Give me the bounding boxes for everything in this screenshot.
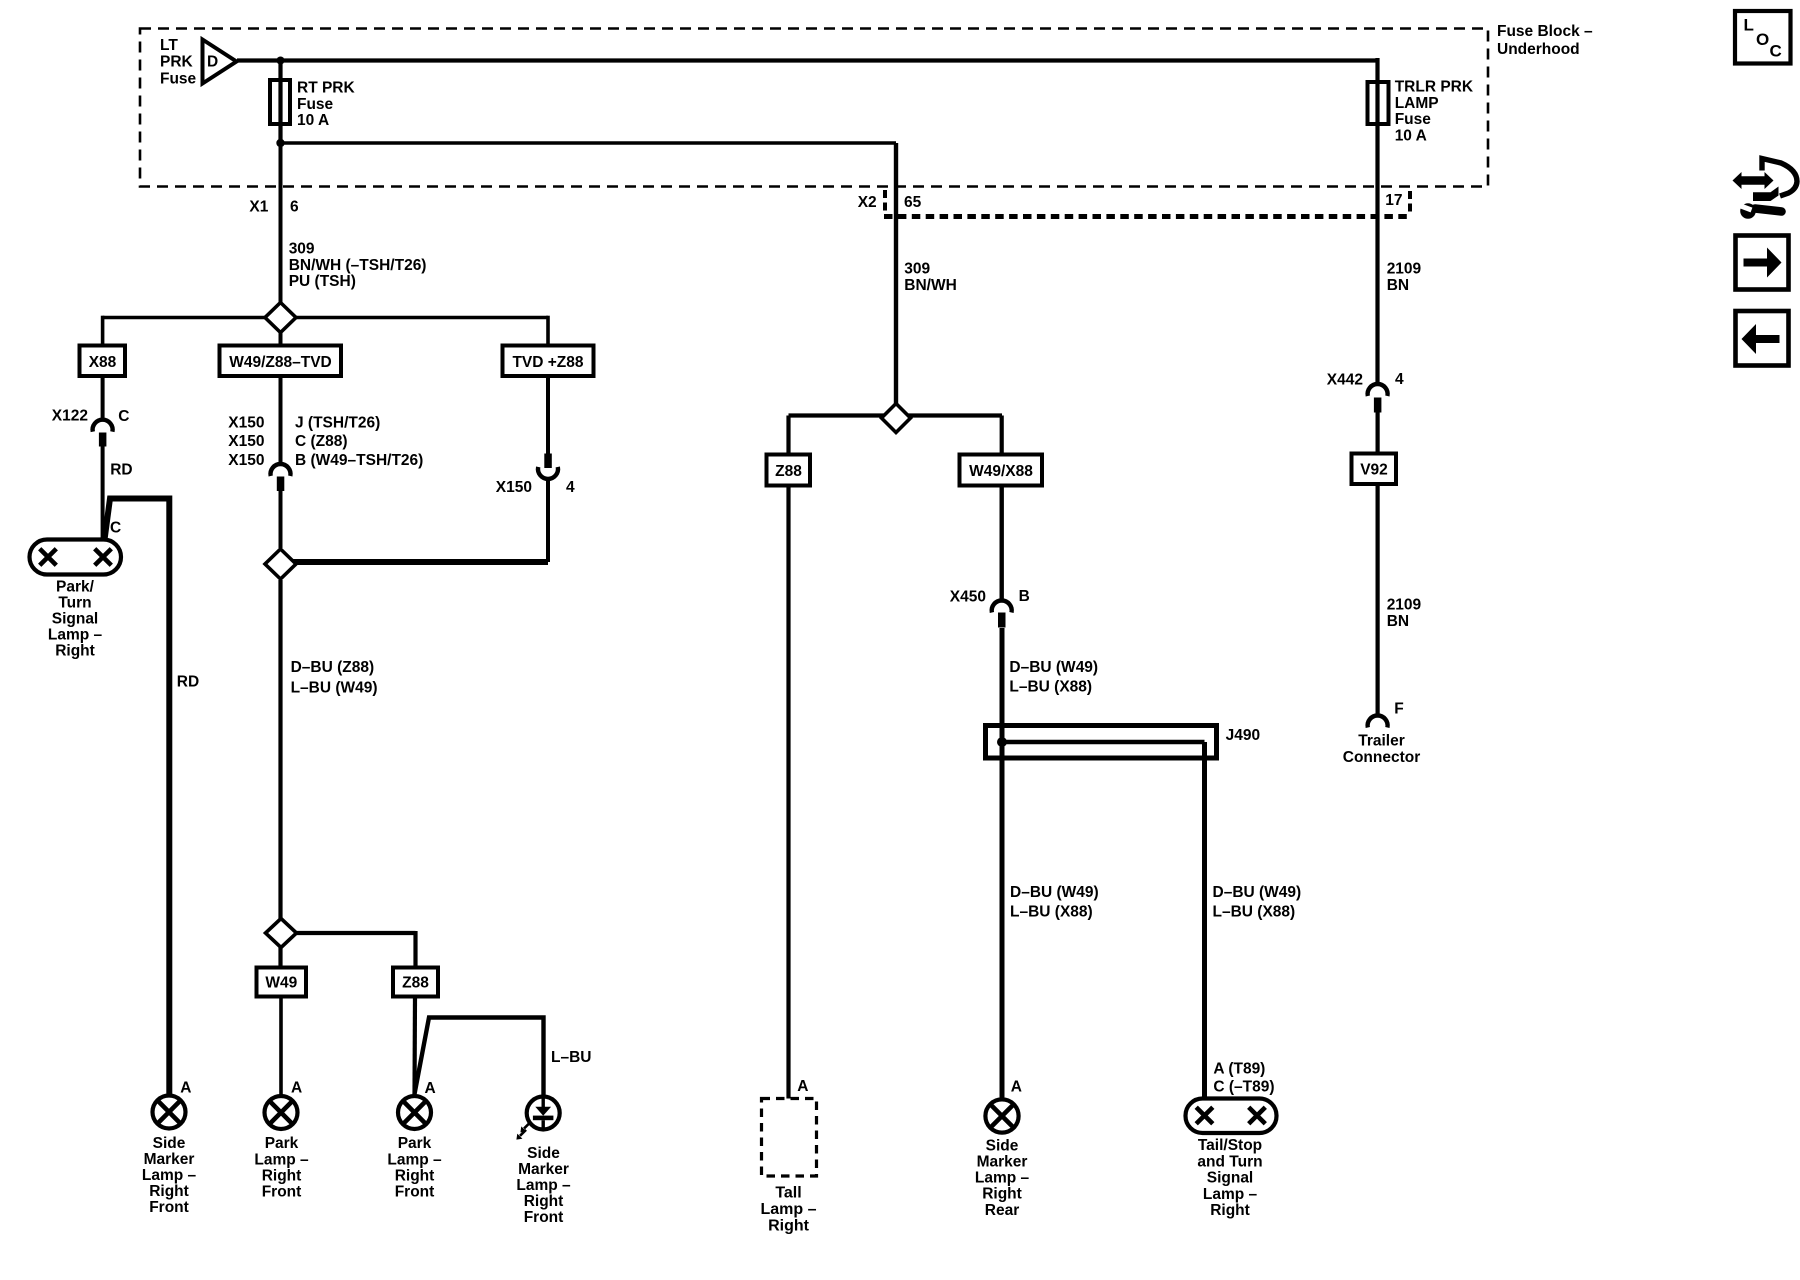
svg-text:L–BU (W49): L–BU (W49): [291, 679, 378, 696]
splice diamond S4 horizontal: [281, 931, 416, 935]
svg-text:Front: Front: [149, 1199, 189, 1216]
svg-text:2109: 2109: [1387, 597, 1422, 614]
svg-text:Right: Right: [395, 1167, 435, 1184]
connector code box W49: [257, 968, 307, 997]
svg-text:Fuse: Fuse: [160, 70, 197, 87]
legend box: right arrow: [1736, 236, 1789, 290]
svg-text:309: 309: [904, 261, 930, 278]
svg-text:A: A: [1011, 1078, 1022, 1095]
svg-text:C: C: [118, 408, 129, 425]
svg-text:L–BU: L–BU: [551, 1049, 591, 1066]
wire: box to X150: [279, 376, 283, 465]
splice diamond S1 horizontal wire: [103, 316, 548, 320]
svg-text:O: O: [1756, 30, 1769, 49]
svg-text:Fuse: Fuse: [297, 96, 334, 113]
svg-text:RD: RD: [177, 674, 199, 691]
svg-text:309: 309: [289, 241, 315, 258]
wire: box to X450: [1000, 486, 1004, 602]
svg-text:BN: BN: [1387, 277, 1409, 294]
svg-text:BN/WH: BN/WH: [904, 277, 957, 294]
wire: TVD box down to X150 pin 4: [546, 376, 550, 454]
svg-text:Side: Side: [986, 1137, 1019, 1154]
svg-text:A: A: [797, 1078, 808, 1095]
svg-text:Side: Side: [153, 1135, 186, 1152]
wire: fuse output: [278, 124, 282, 145]
svg-text:and Turn: and Turn: [1197, 1153, 1262, 1170]
svg-text:A: A: [180, 1080, 191, 1097]
svg-text:Lamp –: Lamp –: [760, 1201, 816, 1218]
svg-text:Lamp –: Lamp –: [254, 1151, 309, 1168]
svg-text:RT PRK: RT PRK: [297, 80, 356, 97]
svg-text:B: B: [1019, 588, 1030, 605]
svg-text:Signal: Signal: [1207, 1170, 1254, 1187]
svg-text:L–BU (X88): L–BU (X88): [1009, 678, 1092, 695]
LOC legend box: [1735, 11, 1791, 64]
svg-text:Underhood: Underhood: [1497, 41, 1580, 58]
svg-text:Signal: Signal: [52, 611, 99, 628]
in-line connector X122 pin C: [93, 420, 113, 432]
svg-text:L–BU (X88): L–BU (X88): [1213, 903, 1296, 920]
svg-text:Lamp –: Lamp –: [975, 1170, 1030, 1187]
tail/stop and turn signal lamp right: [1186, 1099, 1277, 1134]
svg-text:D–BU (W49): D–BU (W49): [1213, 884, 1302, 901]
svg-text:X150: X150: [496, 479, 532, 496]
svg-text:BN: BN: [1387, 613, 1409, 630]
svg-text:Right: Right: [524, 1193, 564, 1210]
svg-text:X150: X150: [228, 415, 264, 432]
splice diamond S1: [265, 303, 296, 333]
wire: X450 to J490 and down to side marker rear: [1000, 628, 1005, 1100]
thick wire from S2 to X150-4 corner: [281, 559, 549, 565]
svg-text:Marker: Marker: [144, 1151, 195, 1168]
svg-text:Right: Right: [262, 1167, 302, 1184]
connector code box X88: [80, 346, 126, 377]
svg-text:W49: W49: [265, 975, 297, 992]
svg-text:X1: X1: [249, 199, 268, 216]
svg-text:V92: V92: [1360, 462, 1388, 479]
connector code box Z88 (tail): [767, 455, 811, 486]
svg-text:PU (TSH): PU (TSH): [289, 273, 356, 290]
in-line connector X442 pin 4: [1368, 384, 1388, 396]
svg-text:Marker: Marker: [518, 1161, 569, 1178]
svg-text:Right: Right: [55, 643, 95, 660]
park/turn signal lamp right (dual filament): [30, 540, 122, 575]
fuse RT PRK 10A: [270, 80, 290, 124]
fuse TRLR PRK LAMP 10A: [1375, 58, 1379, 82]
svg-text:10 A: 10 A: [1395, 127, 1427, 144]
svg-text:X150: X150: [228, 433, 264, 450]
wire: down to splice diamond (circuit 309): [279, 143, 283, 347]
splice diamond S2: [265, 549, 296, 579]
svg-text:X442: X442: [1327, 371, 1363, 388]
side marker lamp right front (LED): [527, 1097, 560, 1130]
wire: corner down to X88 box: [101, 316, 105, 347]
svg-text:17: 17: [1385, 192, 1402, 209]
wire RD to lamp terminal C: [101, 447, 105, 541]
svg-text:Park/: Park/: [56, 579, 95, 596]
svg-text:Z88: Z88: [775, 463, 802, 480]
in-line connector X150 pin 4 (flipped): [544, 454, 552, 469]
park lamp right front (W49): [265, 1096, 298, 1129]
svg-text:10 A: 10 A: [297, 112, 329, 129]
svg-text:Right: Right: [982, 1186, 1022, 1203]
svg-text:Z88: Z88: [402, 975, 429, 992]
svg-text:Side: Side: [527, 1145, 560, 1162]
in-line connector X150 (3 pins): [271, 464, 291, 476]
splice pack J490: [986, 726, 1217, 759]
fuse block underhood dashed box: [140, 29, 1488, 187]
svg-text:X88: X88: [89, 354, 117, 371]
connector code box W49/X88: [960, 455, 1043, 486]
svg-text:Fuse: Fuse: [1395, 111, 1432, 128]
connector code box TVD +Z88: [503, 346, 594, 377]
junction node below RT PRK fuse: [276, 139, 284, 147]
svg-text:RD: RD: [110, 462, 132, 479]
side marker lamp right front (left, RD fed): [153, 1096, 186, 1129]
svg-text:X2: X2: [858, 194, 877, 211]
svg-text:LAMP: LAMP: [1395, 95, 1439, 112]
splice diamond S4: [266, 919, 297, 948]
svg-text:6: 6: [290, 199, 299, 216]
svg-text:W49/Z88–TVD: W49/Z88–TVD: [229, 354, 332, 371]
svg-text:2109: 2109: [1387, 261, 1422, 278]
wire: second feed to X2: [281, 141, 897, 145]
svg-text:X150: X150: [228, 452, 264, 469]
svg-text:4: 4: [566, 479, 575, 496]
svg-text:X450: X450: [950, 588, 986, 605]
svg-text:Rear: Rear: [985, 1202, 1019, 1219]
svg-text:Marker: Marker: [977, 1154, 1028, 1171]
connector code box W49/Z88-TVD: [220, 346, 342, 377]
svg-text:A: A: [291, 1080, 302, 1097]
splice diamond S3: [882, 404, 911, 433]
LT PRK Fuse triangle (D): [203, 40, 237, 84]
wire: circuit 2109 down to X442: [1375, 124, 1379, 385]
svg-text:D–BU (Z88): D–BU (Z88): [291, 659, 375, 676]
wire: X150 to splice diamond S2: [279, 491, 283, 548]
park lamp right front (Z88): [398, 1096, 431, 1129]
svg-text:Connector: Connector: [1343, 749, 1421, 766]
svg-text:Front: Front: [262, 1184, 302, 1201]
tail lamp right dashed box: [762, 1099, 817, 1177]
svg-text:Lamp –: Lamp –: [516, 1177, 571, 1194]
wire branch to side marker LED: [415, 1018, 544, 1097]
svg-text:Lamp –: Lamp –: [1203, 1186, 1258, 1203]
svg-text:X122: X122: [52, 408, 88, 425]
svg-text:Tail/Stop: Tail/Stop: [1198, 1137, 1262, 1154]
wire: X2 branch down to diamond: [894, 143, 898, 419]
svg-text:F: F: [1394, 701, 1403, 718]
wire: corner down to TVD box: [546, 316, 550, 346]
svg-text:W49/X88: W49/X88: [969, 463, 1033, 480]
svg-text:Right: Right: [1210, 1202, 1250, 1219]
svg-text:Lamp –: Lamp –: [142, 1167, 197, 1184]
splice diamond S3 horizontal: [789, 413, 1003, 417]
svg-text:C: C: [1770, 42, 1782, 61]
svg-text:4: 4: [1395, 371, 1404, 388]
wire: S4 to Z88 box: [413, 931, 417, 968]
wire: J490 right branch to tail/stop lamp: [1202, 742, 1207, 1099]
svg-text:D–BU (W49): D–BU (W49): [1009, 659, 1098, 676]
svg-text:J (TSH/T26): J (TSH/T26): [295, 415, 380, 432]
svg-text:Fuse Block –: Fuse Block –: [1497, 23, 1593, 40]
svg-text:L: L: [1744, 16, 1754, 35]
connector X2 dotted boundary: [884, 214, 1412, 219]
legend icon: double arrow with wrench: [1733, 159, 1798, 219]
svg-text:65: 65: [904, 194, 922, 211]
svg-text:A: A: [425, 1080, 436, 1097]
svg-text:C (–T89): C (–T89): [1213, 1078, 1274, 1095]
svg-text:Lamp –: Lamp –: [48, 627, 103, 644]
svg-text:Front: Front: [524, 1209, 564, 1226]
wire: S3 to W49/X88 box: [1000, 416, 1004, 456]
svg-text:Lamp –: Lamp –: [387, 1151, 442, 1168]
wire: Z88 box to park lamp A: [412, 997, 417, 1097]
svg-text:C: C: [110, 520, 121, 537]
svg-text:Park: Park: [398, 1135, 432, 1152]
svg-text:Trailer: Trailer: [1358, 733, 1405, 750]
svg-text:Park: Park: [265, 1135, 299, 1152]
wire: X88 box to X122: [101, 376, 105, 421]
wire: main feed from LT PRK fuse: [237, 58, 1378, 62]
trailer connector terminal F: [1368, 716, 1388, 728]
svg-text:L–BU (X88): L–BU (X88): [1010, 903, 1093, 920]
svg-text:Tall: Tall: [775, 1185, 801, 1202]
svg-text:J490: J490: [1226, 727, 1260, 744]
wire: S2 down to S4 (D-BU/L-BU): [278, 580, 282, 968]
legend box: left arrow: [1736, 311, 1789, 366]
svg-text:D–BU (W49): D–BU (W49): [1010, 884, 1099, 901]
in-line connector X450 pin B: [992, 601, 1012, 613]
svg-text:Front: Front: [395, 1184, 435, 1201]
wire: Z88 box to tail lamp: [786, 486, 790, 1099]
svg-text:D: D: [207, 54, 218, 71]
wire: 2109 BN to trailer connector: [1375, 484, 1379, 716]
connector code box V92: [1352, 454, 1397, 485]
junction node at RT PRK fuse tap: [277, 57, 285, 65]
side marker lamp right rear: [985, 1099, 1018, 1132]
thick RD wire to side marker lamp: [105, 499, 170, 1096]
svg-text:B (W49–TSH/T26): B (W49–TSH/T26): [295, 452, 423, 469]
wire: W49 box to park lamp: [279, 997, 283, 1097]
svg-text:Turn: Turn: [58, 595, 91, 612]
connector code box Z88 (front): [393, 968, 438, 997]
svg-text:LT: LT: [160, 37, 178, 54]
svg-text:TVD +Z88: TVD +Z88: [512, 354, 583, 371]
svg-text:A (T89): A (T89): [1213, 1061, 1265, 1078]
svg-text:BN/WH (–TSH/T26): BN/WH (–TSH/T26): [289, 257, 427, 274]
svg-text:Right: Right: [768, 1218, 810, 1235]
wire: tap down to RT PRK fuse: [278, 58, 282, 80]
svg-text:Right: Right: [149, 1183, 189, 1200]
wire: S3 to Z88 box: [786, 416, 790, 456]
svg-text:TRLR PRK: TRLR PRK: [1395, 79, 1474, 96]
wire: X150-4 down to thick wire corner: [546, 479, 550, 562]
svg-text:C (Z88): C (Z88): [295, 433, 348, 450]
svg-text:PRK: PRK: [160, 54, 194, 71]
wire: X442 to V92: [1375, 412, 1379, 454]
